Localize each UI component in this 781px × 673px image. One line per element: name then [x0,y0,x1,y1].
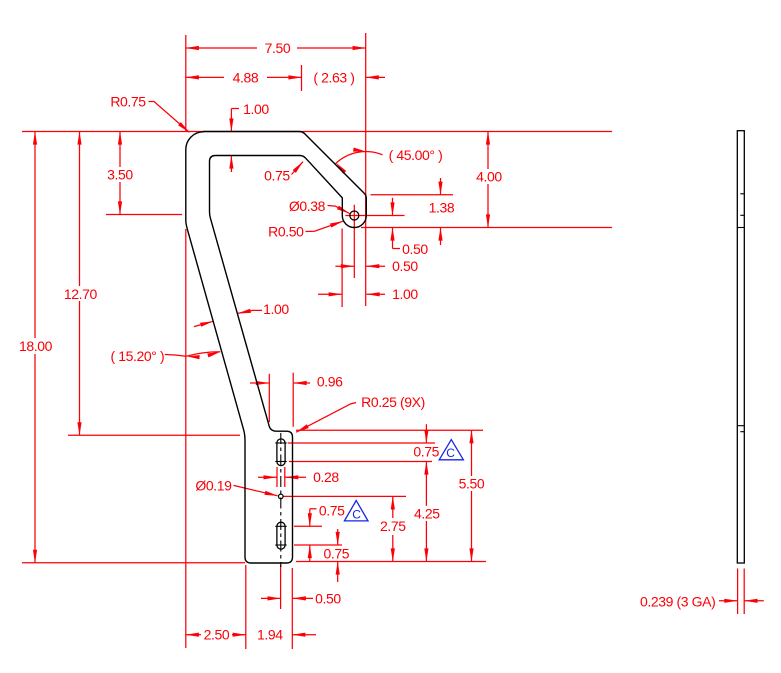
wire: slot left side extension [276,467,278,487]
leader R0.25 (9X) [296,403,356,433]
dimension texts [19,40,715,643]
svg-text:0.50: 0.50 [392,258,418,274]
svg-text:0.96: 0.96 [317,374,343,390]
svg-text:R0.25 (9X): R0.25 (9X) [361,394,425,410]
svg-text:1.00: 1.00 [243,101,269,117]
svg-text:0.239 (3 GA): 0.239 (3 GA) [640,594,715,610]
leader 0.75 bevel width [292,162,304,175]
slot arc-center tick marks [275,442,286,444]
dimension 5.50 [471,430,473,476]
svg-text:C: C [352,507,361,521]
wire: hook tip right tangent extension [365,33,367,306]
hole 0.19 [279,494,284,499]
dimension 18.00 [34,132,36,339]
hole 0.38 at hook tip [350,211,359,220]
wire: left part-edge extension above corner [185,35,187,132]
svg-text:4.25: 4.25 [414,505,440,521]
svg-text:12.70: 12.70 [64,286,98,302]
datum flag C lower [344,501,368,521]
dimension 0.75 upper slot / 4.25 shared arrows [425,424,427,443]
svg-text:Ø0.38: Ø0.38 [289,198,326,214]
wire: hole horizontal centerline [345,215,404,217]
dimension 0.239 (3 GA) [719,600,737,602]
part outline: hook bracket front view [186,132,366,564]
wire: lower slot top arc-center line [294,525,322,527]
svg-text:1.00: 1.00 [263,301,289,317]
svg-text:0.75: 0.75 [319,502,345,518]
wire: side view thickness extension right [743,569,745,615]
svg-text:0.50: 0.50 [402,241,428,257]
leader 1.00 arm width [238,310,262,313]
wire: plate left edge extension below [245,565,247,649]
dimension 0.75 bottom [337,529,339,545]
side view bend line at tip bottom [737,227,744,229]
wire: 12.70 bottom extension line [68,434,240,436]
wire: slot right side extension [284,467,286,487]
svg-text:0.75: 0.75 [323,546,349,562]
wire: slot centerline extension below [280,565,282,609]
svg-text:2.50: 2.50 [204,627,230,643]
dimension 0.50 tip vertical [392,198,394,216]
svg-text:C: C [446,446,455,460]
angular dimension 15.20 arc [165,355,186,357]
wire: 0.96 right extension [292,373,294,427]
wire: 3.50 bottom extension line [106,214,182,216]
wire: arm-bottom tangent extension y=194.7 [371,194,454,196]
svg-text:7.50: 7.50 [265,40,291,56]
leader diameter 0.38 [328,206,350,214]
wire: upper slot bottom arc-center line [289,461,432,463]
dimension 1.38 outside arrows [440,178,442,195]
dimension 0.50 bottom [261,597,281,599]
svg-text:( 45.00° ): ( 45.00° ) [389,147,443,163]
svg-text:18.00: 18.00 [19,338,53,354]
wire: plate right edge extension below [291,568,293,649]
svg-text:0.75: 0.75 [413,444,439,460]
dimension 1.94 right arrow [292,634,316,636]
datum flag C upper [439,440,463,460]
svg-text:1.00: 1.00 [392,286,418,302]
wire: 0.96 left extension [268,374,270,422]
svg-text:2.75: 2.75 [380,518,406,534]
wire: 4.88 right short extension [301,65,303,91]
svg-text:0.75: 0.75 [264,168,290,184]
dimension 1.00 tip width [318,293,342,295]
wire: hook tip left tangent extension [341,229,343,308]
wire: tip bottom extension y=227.5 [361,227,612,229]
wire: hole vertical centerline [353,205,355,278]
dimension 7.50 [186,47,257,49]
dimension 12.70 [79,132,81,287]
svg-text:4.88: 4.88 [233,69,259,85]
dimension 3.50 [119,132,121,168]
wire: plate top extension line right [296,429,483,431]
side view outline [737,131,744,563]
dashed centerline through slots [280,433,282,567]
leader R0.75 [149,102,190,133]
dimension 4.00 [487,132,489,170]
wire: bottom-left extension line y=563.3 [22,562,245,564]
svg-text:1.38: 1.38 [429,200,455,216]
svg-text:3.50: 3.50 [107,167,133,183]
dimension 0.50 tip horizontal [335,265,354,267]
svg-text:0.50: 0.50 [315,590,341,606]
wire: lower slot bottom arc-center line [294,544,342,546]
angular dimension 45.00 arc [335,152,383,165]
dimension 4.25 [425,480,427,506]
svg-text:( 2.63 ): ( 2.63 ) [313,69,354,85]
dimension 0.28 [258,476,277,478]
dimension 2.75 [392,496,394,518]
lower slot [277,522,285,549]
svg-text:( 15.20° ): ( 15.20° ) [111,348,165,364]
wire: upper slot top arc-center line [288,442,435,444]
svg-text:0.28: 0.28 [313,469,339,485]
svg-text:4.00: 4.00 [476,169,502,185]
svg-text:1.94: 1.94 [257,627,283,643]
wire: left edge extension down to 2.50 dim [185,229,187,648]
dimension (2.63) arrow [366,76,385,78]
dimension 0.75 lower slot leader and arrows [310,508,317,510]
svg-text:R0.75: R0.75 [110,94,146,110]
dimension 1.00 top [230,109,232,132]
wire: top datum extension line y=131.5 [22,131,612,133]
dimension 2.50 [186,634,201,636]
wire: side view thickness extension left [737,569,739,615]
side view tick marks [740,193,744,195]
upper slot [277,439,285,466]
dimension 4.88 [186,76,224,78]
svg-text:R0.50: R0.50 [268,224,304,240]
dimension 0.96 [250,382,269,384]
leader diameter 0.19 [234,485,278,495]
wire: bottom-right extension line y=561.5 [296,561,486,563]
side view bend line at plate top [737,425,744,427]
leader R0.50 [306,221,344,231]
svg-text:5.50: 5.50 [459,476,485,492]
svg-text:Ø0.19: Ø0.19 [195,478,232,494]
wire: small hole center line right [284,495,407,497]
